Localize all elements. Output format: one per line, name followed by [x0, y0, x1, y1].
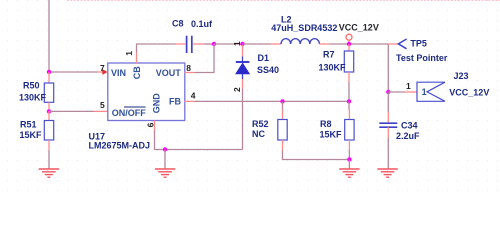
- capacitor C8: [176, 36, 204, 53]
- junction node J23/C34 branch: [386, 90, 390, 94]
- svg-text:130KF: 130KF: [19, 92, 47, 102]
- wire L2 to output corner: [330, 43, 388, 45]
- wire to connector J23: [388, 91, 417, 93]
- svg-text:15KF: 15KF: [320, 129, 343, 139]
- ground below R8: [339, 160, 359, 178]
- svg-text:R52: R52: [252, 119, 269, 129]
- svg-text:VIN: VIN: [111, 68, 126, 78]
- wire diode anode down to ground net: [242, 89, 244, 150]
- svg-text:R50: R50: [23, 80, 40, 90]
- ground mid (below pin 6): [155, 150, 175, 178]
- wire C8 to VOUT node: [204, 43, 214, 45]
- regulator IC U17 LM2675M-ADJ body: [108, 63, 185, 121]
- wire GND pin 6 to ground net: [155, 121, 243, 150]
- svg-text:SS40: SS40: [257, 65, 279, 75]
- svg-text:VCC_12V: VCC_12V: [339, 22, 379, 32]
- wire to ON/OFF pin 5: [49, 110, 108, 112]
- capacitor C34: [379, 92, 397, 138]
- wire input rail vertical: [48, 0, 50, 72]
- resistor R51: [44, 111, 53, 169]
- ground below R51: [39, 169, 59, 177]
- svg-text:TP5: TP5: [410, 39, 427, 49]
- svg-text:FB: FB: [169, 97, 181, 107]
- wire diode node to inductor: [243, 43, 271, 45]
- svg-text:130KF: 130KF: [319, 62, 347, 72]
- test point TP5: [388, 39, 406, 49]
- junction node at ON/OFF branch: [47, 109, 51, 113]
- svg-text:VOUT: VOUT: [156, 68, 182, 78]
- svg-text:Test Pointer: Test Pointer: [396, 53, 448, 63]
- wire FB pin 4: [185, 100, 350, 102]
- svg-text:47uH_SDR4532: 47uH_SDR4532: [271, 23, 337, 33]
- svg-text:VCC_12V: VCC_12V: [449, 87, 489, 97]
- junction node FB/R7/R8: [347, 99, 351, 103]
- svg-text:R8: R8: [320, 119, 332, 129]
- power symbol VCC_12V: [346, 34, 352, 44]
- svg-text:GND: GND: [152, 93, 162, 114]
- svg-text:D1: D1: [258, 53, 270, 63]
- svg-text:LM2675M-ADJ: LM2675M-ADJ: [89, 141, 151, 151]
- svg-text:0.1uf: 0.1uf: [191, 19, 213, 29]
- wire pin 1 CB up to boost net: [137, 44, 177, 63]
- resistor R7: [344, 44, 353, 101]
- junction node FB/R52: [280, 99, 284, 103]
- svg-text:C8: C8: [172, 19, 184, 29]
- svg-text:5: 5: [100, 100, 105, 110]
- junction node at VCC/R7: [347, 42, 351, 46]
- svg-text:R51: R51: [20, 119, 37, 129]
- svg-text:NC: NC: [252, 129, 265, 139]
- wire VOUT node to diode node: [214, 43, 243, 45]
- ground below C34: [377, 169, 397, 177]
- junction node at VIN branch: [47, 70, 51, 74]
- wire C34 to ground: [387, 138, 389, 169]
- svg-text:ON/OFF: ON/OFF: [112, 108, 146, 118]
- svg-text:J23: J23: [454, 71, 469, 81]
- diode D1 SS40: [236, 45, 250, 89]
- sheet border dashed line (top edge): [67, 0, 500, 2]
- svg-text:2: 2: [232, 87, 242, 92]
- svg-text:8: 8: [186, 63, 191, 73]
- svg-text:6: 6: [145, 122, 155, 127]
- svg-text:1: 1: [406, 81, 411, 91]
- svg-text:1: 1: [232, 41, 242, 46]
- wire VOUT pin 8: [185, 44, 215, 73]
- svg-text:R7: R7: [323, 49, 335, 59]
- svg-text:C34: C34: [401, 120, 418, 130]
- svg-text:1: 1: [124, 51, 134, 56]
- junction node R52/R8/ground: [347, 157, 351, 161]
- svg-text:1: 1: [422, 87, 427, 97]
- wire output corner down to J23/C34: [387, 44, 389, 92]
- svg-text:7: 7: [100, 63, 105, 73]
- svg-text:15KF: 15KF: [20, 130, 43, 140]
- overline of OFF: [124, 106, 146, 108]
- inductor L2: [271, 39, 331, 44]
- junction node at mid ground: [163, 147, 167, 151]
- resistor R8: [345, 101, 354, 159]
- svg-text:CB: CB: [132, 66, 142, 79]
- pin 7 input arrow: [102, 69, 107, 75]
- svg-text:2.2uF: 2.2uF: [396, 131, 420, 141]
- resistor R52 (NC): [278, 101, 287, 150]
- svg-text:4: 4: [191, 91, 196, 101]
- resistor R50: [44, 72, 53, 111]
- junction node at diode cathode: [240, 42, 244, 46]
- junction node VOUT/C8: [212, 42, 216, 46]
- wire R52 bottom to R8 bottom: [283, 150, 350, 160]
- wire to VIN pin 7: [49, 71, 103, 73]
- connector J23: [417, 82, 445, 101]
